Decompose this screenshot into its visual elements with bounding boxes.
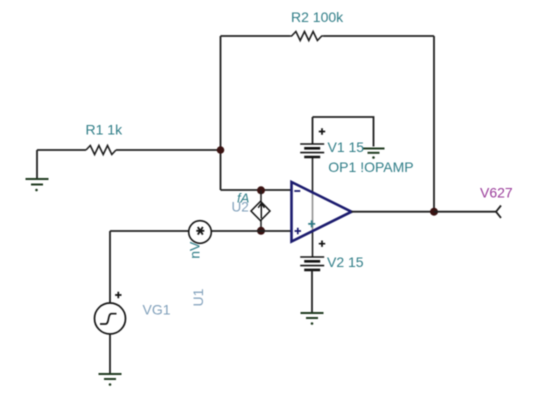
wire VG1 top — [109, 231, 111, 303]
wire R1 right — [116, 149, 221, 151]
wire R1 left — [37, 149, 86, 151]
svg-text:OP1 !OPAMP: OP1 !OPAMP — [328, 159, 413, 175]
battery V2 — [300, 257, 324, 270]
label U2 designator — [232, 199, 249, 214]
wire V1 over top — [313, 117, 374, 147]
wire noninverting input right — [212, 230, 292, 232]
wire output terminal — [434, 211, 496, 213]
ground V2 — [301, 313, 324, 325]
resistor R1 — [86, 146, 116, 155]
wire V2 bottom — [311, 270, 313, 313]
svg-text:nV: nV — [186, 241, 202, 259]
label V1 value — [328, 139, 365, 155]
svg-text:V2 15: V2 15 — [327, 254, 364, 270]
label U2 unit fA — [237, 191, 249, 206]
terminal output pin — [496, 206, 501, 218]
wire op-amp output — [352, 211, 435, 213]
label V627 — [480, 185, 513, 201]
svg-text:R1 1k: R1 1k — [86, 122, 124, 138]
wire inverting input — [221, 189, 292, 191]
wire VG1 bottom — [109, 334, 111, 374]
op-amp plus marker — [295, 228, 301, 234]
wire op-amp supply vertical — [312, 157, 314, 257]
plus mark VG1 — [115, 292, 121, 298]
resistor R2 — [290, 32, 324, 41]
op-amp supply plus marker teal — [308, 220, 315, 227]
ground left — [26, 179, 49, 191]
svg-text:U2: U2 — [232, 199, 249, 214]
wire V1 stem top — [312, 117, 314, 144]
wire noninverting input left — [110, 230, 189, 232]
node junction U2 top — [257, 186, 265, 194]
label U1 unit nV (rotated) — [186, 241, 202, 259]
generator VG1 — [95, 303, 126, 334]
wire feedback right vertical — [433, 36, 435, 212]
svg-text:U1: U1 — [190, 288, 206, 306]
plus mark V2 — [319, 241, 325, 247]
label R1 value — [86, 122, 124, 138]
label V2 value — [327, 254, 364, 270]
wire ground stem left — [36, 150, 38, 179]
op-amp minus marker — [294, 190, 300, 192]
wire U2 vertical — [260, 190, 262, 231]
svg-text:R2 100k: R2 100k — [291, 9, 344, 25]
label U1 designator (rotated) — [190, 288, 206, 306]
wire feedback top right segment — [324, 35, 435, 37]
wire feedback left vertical — [220, 36, 222, 190]
label VG1 — [143, 302, 171, 318]
wire feedback top left segment — [221, 35, 291, 37]
current source U2 diamond — [251, 201, 270, 220]
label OP1 — [328, 159, 413, 175]
label R2 value — [291, 9, 344, 25]
plus mark V1 — [319, 128, 325, 134]
node junction U2 bottom — [257, 227, 265, 235]
svg-text:V1 15: V1 15 — [328, 139, 365, 155]
ground VG1 — [99, 374, 122, 386]
battery V1 — [300, 144, 324, 157]
meter U1 circle — [189, 221, 212, 244]
svg-text:VG1: VG1 — [143, 302, 171, 318]
node junction output — [430, 208, 438, 216]
ground V1 — [363, 149, 385, 159]
svg-text:V627: V627 — [480, 185, 513, 201]
node junction R1-feedback — [217, 146, 225, 154]
op-amp U1 triangle — [292, 182, 352, 242]
